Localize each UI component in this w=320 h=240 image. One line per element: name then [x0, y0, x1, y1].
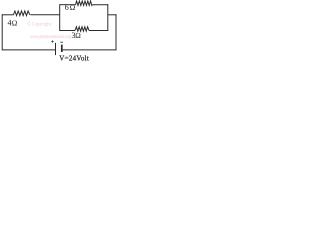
svg-text:www.physicstutorials.org: www.physicstutorials.org: [30, 34, 71, 40]
node parallel right vertical: [107, 4, 109, 31]
battery plus sign: [51, 40, 53, 42]
wire top branch right: [92, 4, 108, 6]
wire top-left: [2, 14, 14, 16]
wire top-mid: [30, 14, 59, 16]
battery V1 long plate: [55, 43, 57, 55]
svg-text:Ω: Ω: [70, 3, 76, 12]
svg-text:6: 6: [65, 3, 69, 12]
node parallel left vertical: [59, 4, 61, 31]
svg-text:Ω: Ω: [75, 31, 81, 40]
resistor R1 4ohm: [13, 11, 29, 16]
svg-text:V=24Volt: V=24Volt: [59, 55, 89, 63]
wire left edge: [1, 14, 3, 50]
wire bottom branch left: [60, 30, 75, 32]
resistor R2 6ohm: [76, 1, 93, 6]
wire top branch left: [60, 4, 76, 6]
wire bottom right: [62, 49, 116, 51]
battery V1 short plate: [61, 45, 63, 52]
wire exit right: [108, 14, 116, 16]
wire bottom branch right: [89, 30, 108, 32]
svg-text:© Copyright: © Copyright: [27, 21, 52, 28]
resistor R3 3ohm: [75, 27, 89, 31]
wire right edge: [115, 14, 117, 50]
wire bottom left: [2, 49, 56, 51]
battery minus sign: [60, 41, 63, 43]
svg-text:Ω: Ω: [12, 18, 18, 27]
